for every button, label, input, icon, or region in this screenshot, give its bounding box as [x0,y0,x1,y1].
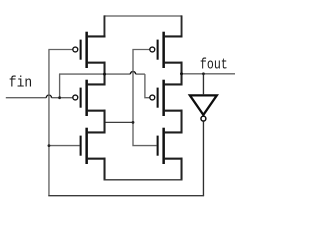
wire: left stack vertical M1-M2 [104,62,106,86]
wire: right stack vertical M6-bottom [181,158,183,181]
svg-text:fout: fout [200,56,228,73]
wire: fin branch up to row [59,74,61,98]
transistor M5 PMOS (middle right) [150,80,183,116]
inverter U1 [190,95,217,121]
wire: M1 gate [48,49,73,51]
wire: right stack vertical M4-M5 [181,62,183,86]
transistor M6 NMOS (bottom right) [157,128,183,164]
wire: inverter input from fout [202,74,204,95]
transistor M3 NMOS (bottom left) [80,128,106,164]
junction dots [58,96,61,99]
wire: node X horizontal (M2/M3 junction to M4/M6 gates) [105,121,134,123]
svg-text:fin: fin [9,75,32,92]
wire: row from fin to M5 gate [59,73,130,75]
wire: fin input horizontal [6,97,47,99]
hop: fin wire over vertical feedback wire [46,95,51,98]
transistor M2 PMOS (middle left) [73,80,106,116]
wire: M4 gate from node X vertical [133,50,157,146]
wire: left stack vertical M3-bottom [104,158,106,181]
wire: fout horizontal [182,73,236,75]
wire: feedback vertical from inverter output to M1/M3 gates [48,50,50,196]
wire: inverter output down [202,121,204,195]
wire: down-leg to M5 gate [145,74,150,98]
wire: top rail connecting drains of M1 and M4 [104,15,182,17]
wire: bottom feedback rail [48,195,204,197]
transistor M4 PMOS (top right) [150,32,183,68]
wire: M3 gate [48,145,79,147]
wire: left stack vertical M2-M3 [104,110,106,134]
hop: row over M4 gate vertical [130,71,135,74]
wire: inner bottom rail (M3 source to M6 source) [104,179,183,181]
transistor M1 PMOS (top left) [73,32,106,68]
wire: right stack vertical M5-M6 [181,110,183,134]
